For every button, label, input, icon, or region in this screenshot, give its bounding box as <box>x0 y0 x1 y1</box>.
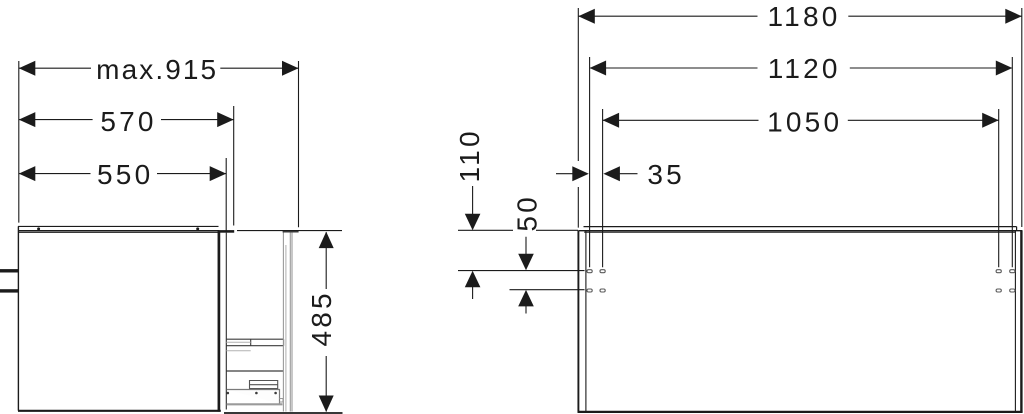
arrow 1120 left <box>590 61 607 76</box>
right view: body inner right line <box>1014 231 1016 411</box>
arrow 485 down <box>319 396 334 413</box>
left view: extension line 570 front <box>233 106 235 226</box>
dimension line 1120 <box>590 67 1013 69</box>
left view: carcass front edge (thick) <box>218 230 221 411</box>
left view: top plate bottom line <box>18 230 219 232</box>
hole row2 col 1050-left <box>600 289 605 292</box>
right view: console top line <box>584 227 1017 231</box>
drawer bottom bracket (gray filled) <box>227 390 284 405</box>
drawer front panel in open position (gray) <box>283 232 292 411</box>
right view: body inner left line <box>585 231 587 411</box>
right view: extension line 1050 right (to hole) <box>998 109 1000 267</box>
right view: extension line first hole row <box>458 270 585 272</box>
right view: console bottom line <box>579 230 1023 232</box>
drawer rail middle <box>226 370 283 372</box>
arrow 110 down <box>465 214 481 231</box>
arrow 1050 right <box>982 113 999 128</box>
top plate screw dot right <box>196 227 199 230</box>
left view: extension line carcass top to 485 dim <box>237 230 342 232</box>
right view: extension line 1180 left <box>577 8 579 228</box>
right view: extension line 1120 left (to hole) <box>589 57 591 267</box>
right view: extension line 1180 right <box>1021 8 1023 227</box>
arrow 1180 right <box>1005 9 1022 24</box>
hole row1 col 1050-right <box>996 270 1001 273</box>
arrow 35 pointing left <box>603 166 620 181</box>
left view: carcass left wall <box>17 226 19 410</box>
dimension 110 stems <box>472 186 474 299</box>
wall bracket lower <box>0 289 18 292</box>
arrow 550 right <box>210 166 227 181</box>
arrow 570 right <box>217 112 234 127</box>
arrow max.915 left <box>19 61 36 76</box>
arrow 50 down <box>518 254 534 271</box>
right view: extension line 1120 right (to hole) <box>1011 57 1013 267</box>
hole row1 col 1120-left <box>587 270 592 273</box>
drawer slide housing box <box>250 381 278 389</box>
svg-text:35: 35 <box>647 159 685 190</box>
arrow 110 up <box>465 271 481 288</box>
svg-text:50: 50 <box>511 194 542 232</box>
left view: top plate top line <box>18 225 219 227</box>
left view: carcass bottom <box>18 410 221 412</box>
arrow 50 up <box>518 290 534 307</box>
top plate screw dot left <box>37 227 40 230</box>
left view: carcass inner front line <box>225 233 227 410</box>
left view: extension line carcass bottom to 485 dim <box>224 412 343 414</box>
right view: body outer left edge (thick) <box>577 230 579 412</box>
svg-text:max.915: max.915 <box>96 54 218 85</box>
hole row2 col 1120-left <box>587 289 592 292</box>
dimension line 570 <box>19 119 234 121</box>
svg-text:550: 550 <box>97 159 153 190</box>
wall bracket upper <box>0 269 18 272</box>
right view: extension line top edge (110) <box>458 229 578 231</box>
hole row2 col 1120-right <box>1010 289 1015 292</box>
top plate front thick bar <box>218 230 234 233</box>
svg-text:1180: 1180 <box>767 1 840 32</box>
dimension line 485 (vertical) <box>325 232 327 411</box>
drawer front top edge (dark) <box>283 231 299 233</box>
arrow 570 left <box>19 112 36 127</box>
right view: body bottom (thick) <box>578 411 1023 413</box>
left view: carcass top line <box>18 231 219 233</box>
arrow 1180 left <box>578 9 595 24</box>
dimension line 1180 <box>578 15 1022 17</box>
arrows right view <box>465 9 1022 307</box>
dimension 50 stems <box>525 237 527 314</box>
dimension 35 arrow tails <box>556 173 638 175</box>
hole row1 col 1120-right <box>1010 270 1015 273</box>
drawer rail upper (telescopic) <box>226 339 283 346</box>
mounting holes <box>587 270 1015 292</box>
arrow 1050 left <box>603 113 620 128</box>
right view: carcass top line <box>584 231 1016 233</box>
dimension line 550 <box>19 173 226 175</box>
svg-text:1050: 1050 <box>767 106 842 137</box>
arrow 1120 right <box>996 61 1013 76</box>
arrow 35 pointing right <box>572 166 589 181</box>
hole row1 col 1050-left <box>600 270 605 273</box>
svg-text:110: 110 <box>454 128 485 182</box>
left view: extension line 550 front <box>225 158 227 231</box>
dimension line 1050 <box>603 119 999 121</box>
arrows left view <box>19 61 334 412</box>
left view: extension line left (wall side) <box>18 61 20 223</box>
arrow 550 left <box>19 166 36 181</box>
drawer rail upper faint inner lines <box>226 342 250 351</box>
dimension line max.915 <box>19 67 299 69</box>
hole row2 col 1050-right <box>996 289 1001 292</box>
svg-text:570: 570 <box>100 106 156 137</box>
right view: body outer right edge (thick) <box>1020 230 1022 412</box>
svg-text:1120: 1120 <box>768 53 841 84</box>
arrow max.915 right <box>282 61 299 76</box>
svg-text:485: 485 <box>306 290 337 346</box>
left view: extension line drawer-open front (max.915) <box>298 61 300 227</box>
right view: extension line second hole row <box>510 289 585 291</box>
right view: extension line 1050 left (to hole) <box>602 109 604 267</box>
arrow 485 up <box>319 232 334 249</box>
